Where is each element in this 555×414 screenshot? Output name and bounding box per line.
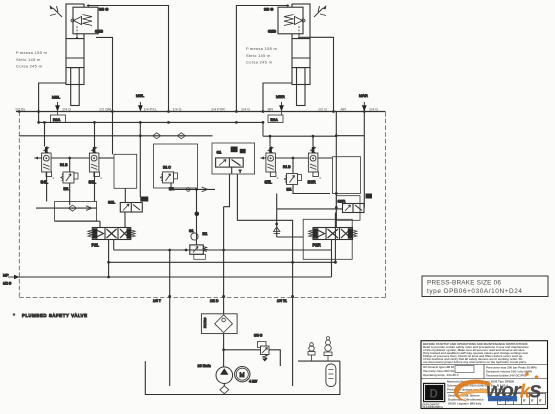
port T1 [277,262,294,386]
svg-text:S3R: S3R [308,180,316,185]
wire pilot line with orifices [19,122,212,197]
wire S4L supply drop [44,122,46,146]
subplate box left check [36,202,97,222]
svg-text:Corsa 245 m: Corsa 245 m [16,64,43,69]
wire S1 drops [224,167,293,262]
title box PRESS-BRAKE [422,276,548,297]
svg-text:1/2 G: 1/2 G [3,282,12,286]
gauge port MBL [52,95,61,112]
svg-text:R1A: R1A [53,118,61,122]
nameplate box [421,341,548,409]
note plumbed safety valve [13,313,88,318]
cylinder CYL-L body [66,4,84,106]
gauge port MBR [276,94,285,112]
svg-text:4 kW: 4 kW [249,380,258,384]
wire filter to pump [223,334,225,367]
svg-text:1/4 G: 1/4 G [62,108,71,112]
wire right valve rail [260,157,332,160]
level gauge LG [326,364,336,387]
wire S3R supply drop [312,136,314,146]
wire rail C [109,261,337,264]
valve M1L pilot [60,158,78,191]
valve M1C pilot [160,166,177,192]
svg-text:S2L: S2L [108,200,116,205]
svg-text:MBR: MBR [276,94,285,99]
svg-text:3/8 G: 3/8 G [99,8,108,12]
svg-text:S5L: S5L [265,180,273,185]
subplate box G1 [154,144,198,188]
svg-text:1/4 G: 1/4 G [173,108,182,112]
gauge port MAR [359,93,368,112]
svg-text:FILTRO: FILTRO [203,317,207,328]
svg-text:Stelo 145 m: Stelo 145 m [246,53,271,58]
valve S3L [89,147,102,185]
svg-text:AL: AL [108,107,114,112]
pump P [198,364,233,384]
svg-text:20025 Legnano (MI) Italy: 20025 Legnano (MI) Italy [448,402,482,406]
D manufacturer logo [423,383,446,409]
subplate box S1 [212,143,255,174]
wire AR/MAR link [335,112,364,228]
gauge G1 [189,229,207,240]
check valve CV-R [274,209,304,237]
port T [153,249,171,386]
svg-text:S2R: S2R [338,199,346,204]
cylinder CYL-R body [292,4,310,106]
svg-text:S3L: S3L [89,180,97,185]
wire M1L down [69,183,71,205]
cartridge label box R1A right [268,112,283,123]
port labels on bus [15,107,378,112]
svg-text:23 l/min: 23 l/min [198,364,211,368]
svg-text:1/4 PXR: 1/4 PXR [211,108,225,112]
safety valve block SMB-L on CYL-L [71,7,98,39]
wire S2R feed [277,194,343,209]
load arrow on CYL-L rod [50,5,63,17]
svg-text:1/4 G: 1/4 G [241,108,250,112]
valve S3R [308,147,321,185]
svg-text:1/2 BL: 1/2 BL [15,108,26,112]
svg-text:P2L: P2L [92,243,100,248]
wire CYL-L bottom to BL [39,83,66,112]
subplate box S2L [114,154,137,188]
wire rail A [114,240,332,278]
svg-text:M1: M1 [287,188,292,192]
svg-text:3/8 G: 3/8 G [264,8,273,12]
wire CYL-L top to PXL [87,4,169,111]
svg-text:MP: MP [3,274,9,278]
cartridge label box R1A left [51,112,66,123]
relief valve RV1 [190,245,207,259]
filter F1 [201,314,237,334]
gauge port MSL [136,93,145,112]
wire left valve rail [34,157,89,160]
svg-text:G1: G1 [189,229,194,233]
spec text CYL-R [246,46,278,65]
valve S1 [216,147,246,174]
svg-text:BR: BR [268,107,274,112]
valve S5L [265,147,279,185]
svg-text:MSL: MSL [136,93,145,98]
svg-text:1/2 D: 1/2 D [210,299,219,303]
subplate box P2R [303,219,352,259]
check valve ball above G1 [195,189,200,245]
svg-text:1/4 PXL: 1/4 PXL [144,108,157,112]
wire S3L to box [99,157,114,159]
svg-text:SMB: SMB [95,30,103,34]
motor M [235,367,258,384]
wire CYL-R side to AR [300,37,334,111]
safety valve block SMB-R on CYL-R [278,7,305,39]
wire check line G1 [171,187,215,192]
svg-text:S1: S1 [217,149,223,154]
relief valve RV2 [222,334,280,367]
tank [145,361,340,394]
svg-text:MBL: MBL [52,95,61,100]
wire S3L supply drop [94,122,96,146]
svg-text:S4L: S4L [41,180,49,185]
svg-text:R1 B: R1 B [60,163,68,167]
spec text CYL-L [16,50,48,69]
svg-text:type DPB06+030A/10N+D24: type DPB06+030A/10N+D24 [427,288,523,295]
wire M1R to P2R pilot [293,185,330,194]
svg-text:P2R: P2R [313,243,321,248]
subplate box S2R [333,157,361,194]
wire main port bus [16,110,386,113]
svg-text:PLUMBED SAFETY VALVE: PLUMBED SAFETY VALVE [22,313,88,318]
svg-text:1/4 G: 1/4 G [369,108,378,112]
svg-text:Corsa 245 m: Corsa 245 m [246,60,273,65]
svg-text:OLEODINAMICA: OLEODINAMICA [423,405,443,409]
wire CYL-R bottom to BR [263,83,292,112]
port MP [3,274,19,286]
valve M1R pilot [283,158,302,192]
svg-text:M1: M1 [203,232,208,236]
breather B2 [324,337,332,362]
svg-text:SMB: SMB [268,30,276,34]
svg-text:1/4 T: 1/4 T [153,299,162,303]
breather B1 [308,343,315,361]
wire S2L to P2L [47,172,125,228]
wire S5L supply drop [269,136,271,146]
load arrow on CYL-R rod [314,5,327,17]
svg-text:P.messa 155 m: P.messa 155 m [246,46,278,51]
wire AL drop [112,112,114,155]
subplate box S2R lower [336,196,360,221]
svg-text:3/8 G: 3/8 G [254,334,263,338]
svg-text:R1A: R1A [271,118,279,122]
eworks watermark [454,372,541,402]
svg-text:MAR: MAR [359,93,368,98]
svg-text:Tensione bobine 24V DC IP65: Tensione bobine 24V DC IP65 [486,374,527,378]
svg-text:Operating temp. -10/+60 C: Operating temp. -10/+60 C [423,373,460,377]
svg-text:not disconnect power before an: not disconnect power before any interven… [423,360,527,364]
wire S2R drain [334,213,336,263]
svg-text:M: M [240,373,245,379]
wire rail under bus [37,112,336,138]
svg-text:M1: M1 [64,187,69,191]
svg-text:Stelo 145 m: Stelo 145 m [16,57,41,62]
valve S2L [108,197,148,213]
valve S4L [41,147,55,185]
svg-text:PRESS-BRAKE SIZE 06: PRESS-BRAKE SIZE 06 [427,280,501,287]
valve P2R [309,228,358,248]
suction check under pump [220,384,229,395]
wire MP rail [14,240,332,279]
wire CYL-R top to PXR [236,4,289,111]
wire S2L box drop [124,188,126,202]
manifold dashed border [19,112,385,298]
svg-text:R1 B: R1 B [283,165,291,169]
valve S2R [338,194,373,213]
port D [210,207,225,314]
svg-text:1/4 T1: 1/4 T1 [277,299,287,303]
svg-text:e-works.net.cn: e-works.net.cn [490,397,512,401]
svg-text:D: D [430,389,438,401]
valve P2L [88,228,136,248]
wire CYL-L side to AL [96,37,113,111]
svg-text:AR: AR [341,107,347,112]
svg-text:1/2 G: 1/2 G [318,108,327,112]
svg-text:P.messa 155 m: P.messa 155 m [16,50,48,55]
